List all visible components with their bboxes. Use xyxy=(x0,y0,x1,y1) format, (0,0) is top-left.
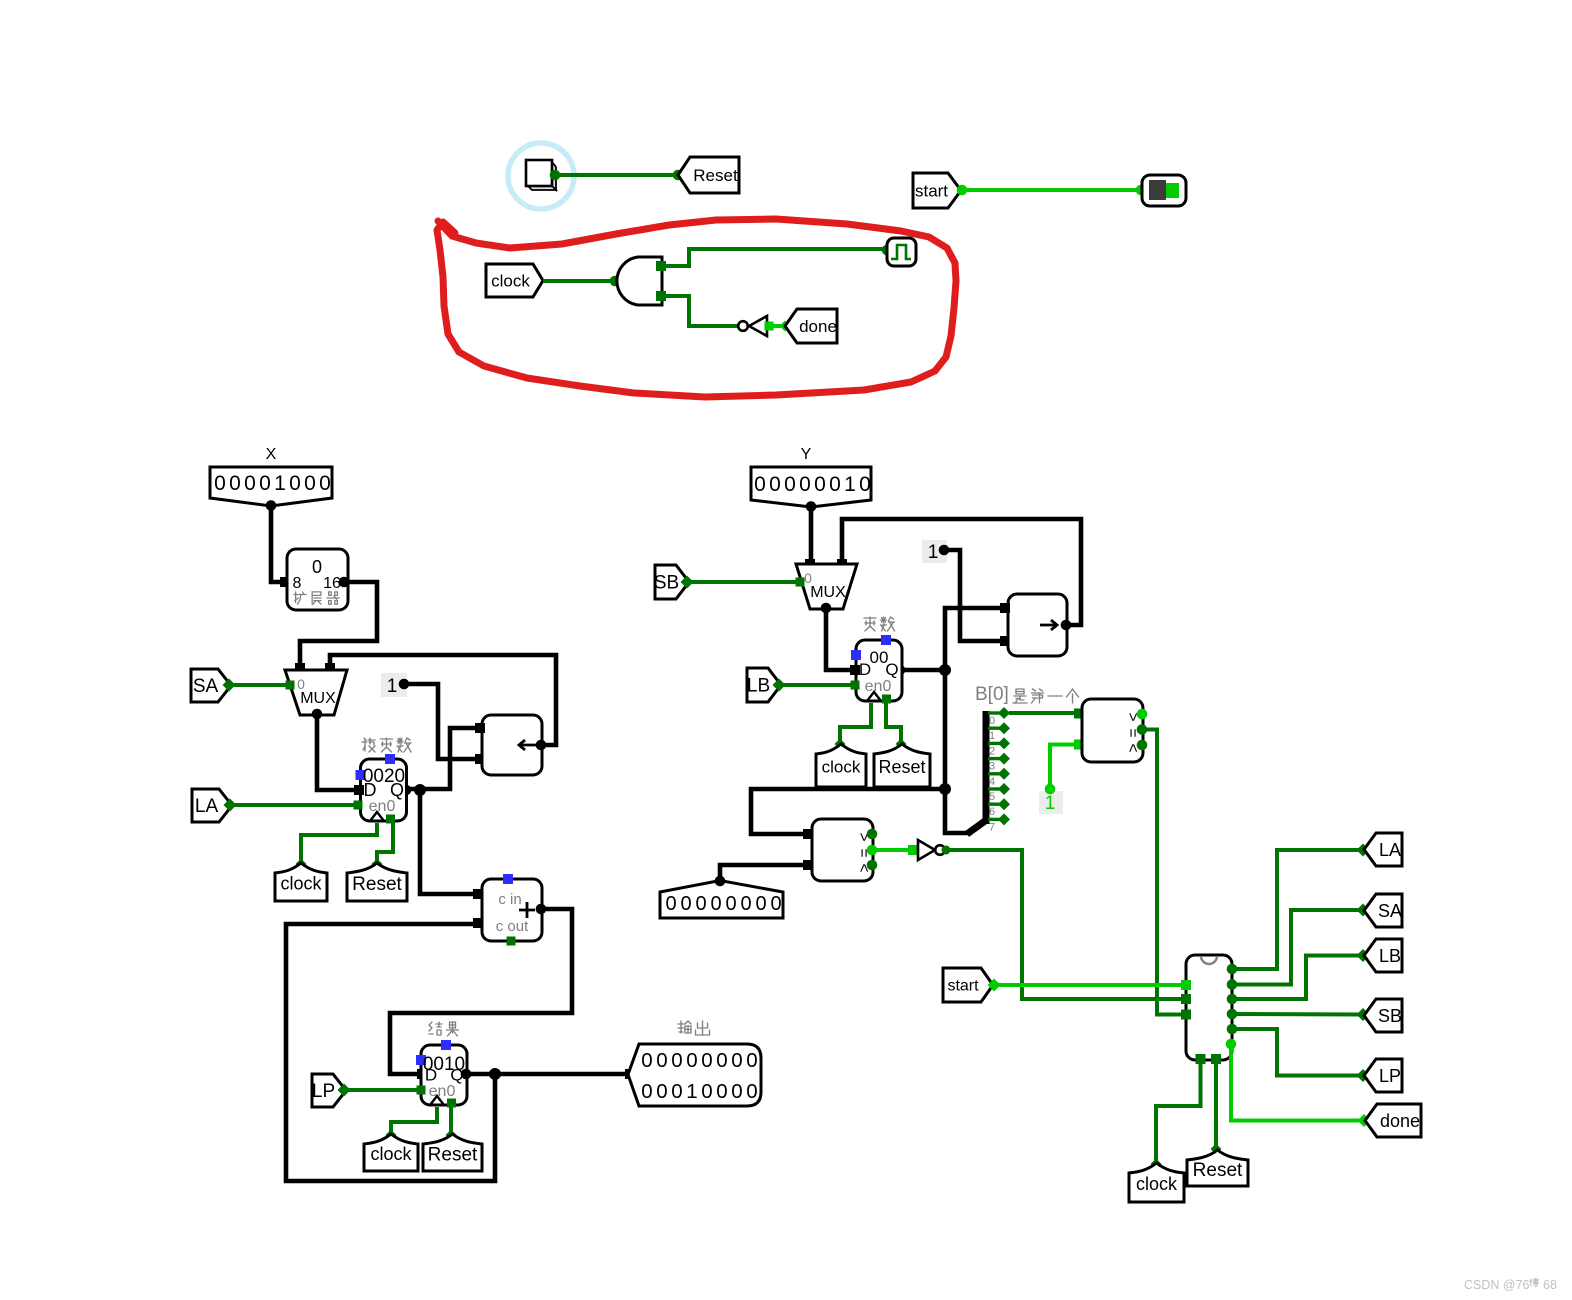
wire shifter U5 out to MUX1 in1 xyxy=(330,655,556,745)
input pin Y xyxy=(751,467,871,507)
svg-text:0: 0 xyxy=(259,472,271,495)
node reg2-Q junction xyxy=(939,664,951,676)
svg-text:0: 0 xyxy=(214,472,226,495)
wire adder sum to reg3 D xyxy=(390,909,572,1074)
selection halo around button xyxy=(508,143,574,209)
bit extender U3 xyxy=(287,549,348,610)
clock generator CLK1 xyxy=(887,238,916,266)
svg-text:0: 0 xyxy=(784,473,796,496)
wire AND in1 from clock generator xyxy=(661,249,886,266)
svg-text:0: 0 xyxy=(740,893,751,915)
svg-text:0: 0 xyxy=(754,473,766,496)
wire start to controller n1 xyxy=(993,983,1184,987)
svg-text:4: 4 xyxy=(989,776,995,788)
constant 1 (shift amount, right) xyxy=(922,540,947,563)
AND gate U1 (mirrored, output left) xyxy=(617,257,662,305)
svg-text:Reset: Reset xyxy=(1193,1160,1243,1181)
wire constant 1 to comparator U9 B xyxy=(1050,745,1077,790)
wire extender to MUX1 in0 xyxy=(300,582,377,666)
wire reg1 Q to shifter U5 in xyxy=(406,728,478,789)
wire controller to done xyxy=(1231,1044,1363,1121)
wire clock to controller clk xyxy=(1156,1060,1201,1163)
comparator U9 xyxy=(1082,699,1143,762)
svg-text:D: D xyxy=(425,1066,437,1085)
wire LP to reg3 enable xyxy=(345,1088,419,1092)
wire button to Reset xyxy=(554,173,677,177)
svg-text:X: X xyxy=(266,446,277,463)
svg-text:0: 0 xyxy=(804,570,812,586)
wire Reset to reg1 reset xyxy=(377,823,393,864)
wire reg3 Q to output probe xyxy=(466,1072,628,1077)
wire clock tunnel to AND output xyxy=(543,279,614,283)
svg-text:0: 0 xyxy=(701,1049,712,1072)
svg-text:1: 1 xyxy=(844,473,856,496)
net label start (top) xyxy=(913,173,961,208)
svg-text:0: 0 xyxy=(671,1080,682,1103)
svg-text:0: 0 xyxy=(829,473,841,496)
svg-text:done: done xyxy=(1380,1111,1420,1131)
controller IC U10 xyxy=(1186,955,1232,1060)
svg-text:start: start xyxy=(915,181,948,200)
svg-text:6: 6 xyxy=(989,806,995,818)
svg-text:Reset: Reset xyxy=(878,757,925,777)
register REG3 result xyxy=(429,1022,442,1035)
svg-text:0: 0 xyxy=(680,893,691,915)
net label LA (left) xyxy=(192,789,232,822)
wire Reset to controller reset xyxy=(1214,1060,1218,1148)
svg-text:0: 0 xyxy=(686,1049,697,1072)
svg-text:1: 1 xyxy=(989,730,995,742)
net label clock (reg3) xyxy=(364,1134,418,1171)
wire clock to reg1 clk xyxy=(301,823,377,864)
wire controller to SB xyxy=(1232,1012,1362,1017)
net label SA (right) xyxy=(1364,894,1402,927)
svg-text:0: 0 xyxy=(725,893,736,915)
svg-text:0: 0 xyxy=(710,893,721,915)
svg-text:B[0]: B[0] xyxy=(975,684,1009,705)
net label clock (reg1) xyxy=(275,863,327,901)
svg-text:CSDN @76: CSDN @76 xyxy=(1464,1278,1530,1292)
wire U8 equal to NOT U4 xyxy=(872,848,913,852)
svg-text:LP: LP xyxy=(312,1081,335,1102)
svg-text:LP: LP xyxy=(1379,1066,1401,1086)
net label SB (left) xyxy=(655,565,689,599)
svg-text:0: 0 xyxy=(289,472,301,495)
multiplexer MUX1 xyxy=(285,670,347,715)
svg-text:0: 0 xyxy=(656,1080,667,1103)
svg-text:LB: LB xyxy=(1379,946,1401,966)
net label Reset (controller) xyxy=(1187,1150,1248,1186)
wire MUX2 out to reg2 D xyxy=(826,608,853,670)
svg-text:Q: Q xyxy=(885,660,898,679)
svg-text:c in: c in xyxy=(498,891,521,908)
svg-text:MUX: MUX xyxy=(810,584,846,601)
wire splitter bit0 to comparator U9 A xyxy=(1009,711,1077,715)
wire constant 1 to shifter U5 dist xyxy=(404,684,478,759)
wire constant 0 to comparator U8 B xyxy=(720,865,806,881)
svg-text:0: 0 xyxy=(989,715,995,727)
comparator U8 xyxy=(812,819,873,881)
svg-text:3: 3 xyxy=(989,761,995,773)
svg-text:0: 0 xyxy=(746,1080,757,1103)
svg-text:Reset: Reset xyxy=(693,166,738,185)
wire X to extender xyxy=(271,506,283,583)
wire shifter U6 out to MUX2 in1 xyxy=(842,519,1081,625)
net label SB (right) xyxy=(1364,999,1402,1032)
svg-text:0: 0 xyxy=(656,1049,667,1072)
wire controller to LP xyxy=(1232,1029,1362,1076)
wire Y to MUX2 in0 xyxy=(809,507,814,563)
svg-text:0: 0 xyxy=(671,1049,682,1072)
svg-text:0: 0 xyxy=(716,1049,727,1072)
net label clock (reg2) xyxy=(816,744,866,787)
wire MUX1 out to reg1 D xyxy=(317,714,358,790)
net label LA (right) xyxy=(1364,833,1402,866)
wire U9 equal to controller n3 xyxy=(1142,730,1184,1015)
svg-text:0: 0 xyxy=(755,893,766,915)
NOT gate U2 (mirrored, bubble left) xyxy=(738,321,748,331)
svg-text:8: 8 xyxy=(293,575,302,592)
wire start to switch xyxy=(961,188,1142,192)
svg-text:1: 1 xyxy=(928,542,939,563)
net label start (bottom) xyxy=(943,968,993,1002)
net label clock (controller) xyxy=(1129,1163,1184,1202)
wire reg1 Q to adder A xyxy=(420,790,476,894)
svg-text:0: 0 xyxy=(859,473,871,496)
net label SA (left) xyxy=(191,669,231,702)
net label Reset (reg1) xyxy=(347,863,407,901)
svg-text:SA: SA xyxy=(193,676,219,697)
svg-text:start: start xyxy=(947,978,979,995)
svg-text:1: 1 xyxy=(686,1080,697,1103)
net label Reset (reg3) xyxy=(423,1134,482,1171)
svg-text:SB: SB xyxy=(1378,1006,1402,1026)
svg-text:MUX: MUX xyxy=(300,690,336,707)
svg-text:0: 0 xyxy=(244,472,256,495)
constant 1 (shift amount, left) xyxy=(381,673,407,697)
wire result feedback to adder B xyxy=(286,924,495,1181)
wire LA to reg1 enable xyxy=(231,803,356,807)
svg-text:Q: Q xyxy=(390,780,404,800)
svg-text:0: 0 xyxy=(641,1049,652,1072)
wire LB to reg2 enable xyxy=(780,683,854,687)
svg-text:0: 0 xyxy=(319,472,331,495)
net label LB (left) xyxy=(747,668,781,702)
svg-text:0: 0 xyxy=(312,557,322,577)
wire Reset to reg3 reset xyxy=(449,1106,453,1135)
svg-text:SB: SB xyxy=(654,573,679,594)
wire clock to reg3 clk xyxy=(391,1107,437,1135)
NOT gate U4 xyxy=(918,840,935,860)
svg-text:clock: clock xyxy=(822,758,861,777)
wire reg2 Q to splitter xyxy=(945,789,968,833)
constant 1 (single bit) xyxy=(1039,791,1063,814)
svg-text:16: 16 xyxy=(323,575,341,592)
wire SA to MUX1 select xyxy=(230,683,288,687)
register REG2 multiplier xyxy=(864,617,876,631)
output probe 16-bit xyxy=(678,1021,691,1033)
svg-text:0: 0 xyxy=(769,473,781,496)
wire reg2 Q down xyxy=(943,670,948,789)
node reg1-Q junction xyxy=(414,784,426,796)
splitter SP1 xyxy=(967,821,985,834)
svg-text:clock: clock xyxy=(280,874,322,894)
svg-text:Reset: Reset xyxy=(428,1144,478,1165)
svg-text:0: 0 xyxy=(641,1080,652,1103)
wire constant 1 to shifter U6 dist xyxy=(944,550,1003,641)
svg-text:0: 0 xyxy=(731,1049,742,1072)
net label clock (top) xyxy=(486,264,543,297)
shift-left unit U5 xyxy=(482,715,542,775)
svg-text:LA: LA xyxy=(1379,840,1401,860)
svg-text:0: 0 xyxy=(229,472,241,495)
toggle switch SW2 xyxy=(1142,175,1186,206)
svg-text:0: 0 xyxy=(665,893,676,915)
wire controller to LB xyxy=(1232,956,1362,1000)
constant 00000000 xyxy=(660,881,783,919)
push button SW1 xyxy=(552,162,556,190)
svg-text:en0: en0 xyxy=(429,1083,456,1100)
svg-text:5: 5 xyxy=(989,791,995,803)
svg-text:0: 0 xyxy=(701,1080,712,1103)
register REG1 multiplicand xyxy=(362,738,375,752)
hand-drawn red annotation loop xyxy=(437,219,956,397)
wire controller to LA xyxy=(1232,850,1362,969)
svg-text:0: 0 xyxy=(695,893,706,915)
net label done (right) xyxy=(1365,1104,1421,1137)
wire reg2 Q to shifter U6 in xyxy=(900,608,1003,670)
net label done (top) xyxy=(785,309,837,343)
svg-text:D: D xyxy=(859,660,871,679)
svg-text:clock: clock xyxy=(370,1144,412,1164)
svg-text:1: 1 xyxy=(1045,793,1056,814)
svg-text:en0: en0 xyxy=(369,798,396,815)
svg-text:clock: clock xyxy=(491,271,530,290)
svg-text:1: 1 xyxy=(387,676,398,697)
net label LB (right) xyxy=(1364,939,1402,972)
svg-text:SA: SA xyxy=(1378,901,1402,921)
svg-text:68: 68 xyxy=(1543,1278,1557,1292)
svg-text:0: 0 xyxy=(297,676,305,692)
net label LP (left) xyxy=(312,1074,346,1107)
svg-text:0: 0 xyxy=(746,1049,757,1072)
wire reg2 Q to comparator U8 A xyxy=(751,789,945,834)
svg-text:7: 7 xyxy=(989,821,995,833)
svg-text:Reset: Reset xyxy=(352,874,402,895)
svg-text:0: 0 xyxy=(799,473,811,496)
wire done to NOT U2 input xyxy=(771,324,784,328)
wire Reset to reg2 reset xyxy=(886,703,901,744)
svg-text:clock: clock xyxy=(1136,1174,1178,1194)
svg-text:0: 0 xyxy=(716,1080,727,1103)
svg-text:0: 0 xyxy=(770,893,781,915)
svg-text:LA: LA xyxy=(195,796,219,817)
input pin X xyxy=(210,467,332,506)
svg-text:LB: LB xyxy=(747,676,770,697)
svg-text:c out: c out xyxy=(496,918,529,935)
svg-text:en0: en0 xyxy=(865,678,892,695)
net label Reset (reg2) xyxy=(874,744,930,787)
shift-right unit U6 xyxy=(1008,594,1067,656)
net label Reset (top) xyxy=(678,157,739,193)
node reg3-Q junction xyxy=(489,1068,501,1080)
net label LP (right) xyxy=(1364,1059,1402,1092)
svg-text:2: 2 xyxy=(989,745,995,757)
svg-text:done: done xyxy=(799,317,837,336)
wire SB to MUX2 select xyxy=(688,580,798,584)
multiplexer MUX2 xyxy=(796,564,857,609)
svg-text:1: 1 xyxy=(274,472,286,495)
wire AND in2 from NOT U2 xyxy=(661,296,738,326)
wire NOT U4 out to controller n2 xyxy=(946,850,1184,999)
svg-text:0: 0 xyxy=(304,472,316,495)
svg-text:Y: Y xyxy=(801,446,812,463)
wire controller to SA xyxy=(1232,910,1362,985)
svg-text:D: D xyxy=(364,780,377,800)
svg-text:0: 0 xyxy=(814,473,826,496)
wire clock to reg2 clk xyxy=(840,703,871,744)
svg-text:0: 0 xyxy=(731,1080,742,1103)
node comparator branch junction xyxy=(939,783,951,795)
